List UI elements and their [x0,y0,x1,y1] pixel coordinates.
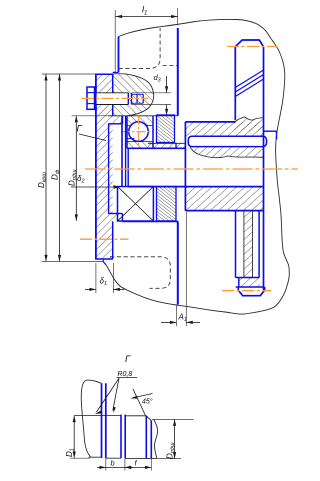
bore bottom line [122,220,177,222]
bolt washer face [95,86,97,110]
gear hub bottom line [185,210,263,212]
slinger ring lower (dense hatch) [157,187,177,221]
helix direction marks [235,70,263,97]
dimension d2 (bolt diameter) extension lines [132,92,171,94]
dimension delta1 (cover thickness) extension lines [95,263,97,293]
bolt thread end [128,93,143,105]
housing outer casting outline [106,19,289,314]
svg-text:b: b [111,459,115,468]
cover spigot upper (hatched) [113,116,123,124]
shaft collar band upper [148,143,185,148]
svg-text:45°: 45° [142,398,153,406]
gear hub upper band (hatched) [185,122,263,136]
shaft bottom surface [128,186,263,188]
dimension l1 extension lines [114,10,116,73]
shaft end face [127,148,129,186]
extension line top (cover top face) [42,73,114,75]
bore top line [108,115,178,117]
svg-text:Г: Г [77,124,83,135]
slinger ring upper (dense hatch) [157,115,175,143]
gear rim lower band (hatched) [239,278,260,288]
svg-text:R0,8: R0,8 [118,371,133,378]
detail: bottom edges [89,457,157,458]
cover lip pair lines [121,116,123,187]
hidden contour (dashed) upper [119,28,178,68]
detail: shoulder face (double line) [101,383,103,458]
dimension D krysh (cover outer diameter) [45,74,47,261]
cover outline [95,74,122,259]
bearing cover plate (hatched) [96,74,113,259]
detail: dimension b [97,466,106,468]
detail: chamfer section (double line) [145,416,147,459]
rim lower inner line [236,286,265,288]
extension line bore top [72,115,119,117]
dimension d2 [166,76,168,93]
detail: 45 deg leader lines [133,394,153,399]
housing front face upper [118,37,120,73]
housing inner wall lower [177,221,179,304]
gear tooth top with chamfers [235,40,263,47]
key (unsectioned) [188,136,266,146]
gear hub left face [184,122,186,211]
gear web (hatched strip) [244,211,253,278]
dimension l1 [116,16,178,18]
lower bolt centerline [80,238,129,240]
cover spigot lower (hatched) [113,214,123,222]
housing inner wall upper [177,28,179,116]
boss freehand edge [124,74,154,116]
detail: b and f extension lines [105,458,107,470]
dimension A1 extension lines [175,305,177,326]
gear rim left edge [234,47,236,121]
housing bottom casting edge (left portion under cover) [103,260,106,265]
dimension D pdsh (bearing bore diameter) [75,116,77,221]
gear web recess walls (lower) [235,211,237,278]
gear pitch line lower [222,290,271,292]
extension line bottom (cover bottom face) [42,260,103,262]
bearing outer ring band (hatched) [127,116,153,126]
ball centerlines [121,131,153,133]
detail: end surface / extension [152,418,194,420]
gear pitch line upper [227,46,277,48]
dimension A1 [161,321,176,323]
leader delta2 (cover lip gap) [71,186,118,188]
detail: R0,8 leaders [97,378,120,412]
bolt shank (white, crosses cover and boss) [95,93,128,105]
rim base transition (hatched, wavy edge) [234,117,264,131]
svg-text:Г: Г [125,354,131,365]
detail: seat surface line [74,415,121,417]
bearing faces [126,116,128,149]
housing step at gear rim [264,130,277,132]
bearing ball [129,122,149,142]
main shaft axis [85,168,298,170]
bearing inner ring band (hatched) [127,142,153,149]
detail: dimension D1 [73,416,75,458]
bottom tooth with chamfers [238,287,264,296]
detail: groove walls (double line) [120,415,122,459]
detail: right break line (freehand) [154,420,158,459]
detail callout leader [79,134,106,141]
simplified bearing symbol (X-box) lower [118,187,154,222]
gear hub top line [185,121,235,123]
detail: surface between groove and chamfer [125,415,146,417]
dimension D f (flange diameter) [59,74,61,261]
gear rim right edge [263,47,265,291]
detail: left break line (freehand) [81,380,101,457]
bolt centerline [82,97,149,99]
hidden recess contour (dashed) lower [110,257,170,289]
bolt hex head [87,87,95,109]
recess bottom [236,277,260,279]
detail: chamfer edge [146,416,152,422]
detail: dimension f [125,466,151,468]
shaft local section below key (hatched, wavy break) [190,147,264,158]
detail: dimension D pdsh [174,419,176,458]
dimension delta1 [85,288,96,290]
bearing race shoulder line [127,138,135,140]
shaft top surface [127,147,185,149]
housing bolt boss (hatched, local section) [113,74,154,116]
gear hub lower band (hatched) [185,188,263,211]
